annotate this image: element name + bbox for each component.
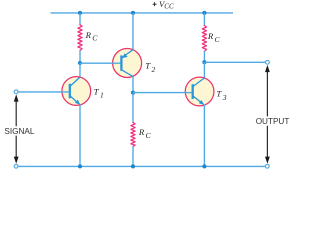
- node A junction dot: [78, 61, 82, 65]
- svg-text:C: C: [146, 131, 152, 140]
- wire node C to T3 collector: [203, 62, 205, 78]
- svg-text:C: C: [92, 34, 98, 43]
- wire node A to T1 collector: [79, 63, 81, 78]
- wire T3 emitter to bottom rail: [203, 105, 205, 167]
- node B junction dot: [131, 91, 135, 95]
- +VCC label: [153, 3, 157, 5]
- SIGNAL label: [3, 126, 34, 135]
- wire resistor RC2 to bottom rail: [132, 146, 134, 166]
- wire node B to resistor RC2: [132, 93, 134, 123]
- svg-text:R: R: [207, 31, 214, 41]
- svg-text:1: 1: [100, 90, 104, 99]
- junction on bottom rail at RC2: [131, 164, 135, 168]
- svg-text:R: R: [138, 127, 145, 137]
- signal double-headed arrow: [14, 94, 19, 163]
- node C junction dot: [202, 60, 206, 64]
- svg-text:C: C: [215, 35, 221, 44]
- transistor T1: [62, 77, 91, 106]
- +VCC supply rail: [51, 12, 234, 14]
- wire resistor R1 to node A: [79, 50, 81, 63]
- wire rail to resistor RC3: [203, 13, 205, 26]
- wire T1 emitter to bottom rail: [79, 105, 81, 167]
- wire node B to T3 base: [133, 92, 193, 94]
- svg-text:T: T: [145, 61, 151, 71]
- resistor RC2: [131, 122, 135, 146]
- signal input top terminal: [14, 90, 18, 94]
- wire T2 collector to node B: [132, 76, 134, 92]
- junction on top rail at T2: [131, 11, 135, 15]
- wire rail to resistor R1: [79, 13, 81, 25]
- junction on bottom rail at T1: [78, 164, 82, 168]
- resistor RC1: [78, 25, 82, 51]
- junction on bottom rail at T3: [202, 164, 206, 168]
- wire node A to T2 base: [80, 62, 122, 64]
- junction on top rail at RC3: [202, 11, 206, 15]
- output double-headed arrow: [265, 65, 270, 164]
- svg-text:T: T: [216, 89, 222, 99]
- output bottom terminal: [265, 164, 269, 168]
- svg-text:3: 3: [222, 93, 227, 102]
- output top terminal: [266, 60, 270, 64]
- OUTPUT label: [255, 116, 291, 125]
- svg-text:2: 2: [152, 65, 156, 74]
- svg-text:SIGNAL: SIGNAL: [4, 127, 34, 136]
- resistor RC3: [202, 26, 206, 52]
- wire rail to T2 emitter: [132, 13, 134, 50]
- svg-text:OUTPUT: OUTPUT: [256, 117, 290, 126]
- transistor T2: [112, 49, 142, 78]
- transistor T3: [185, 77, 214, 106]
- svg-text:R: R: [85, 30, 92, 40]
- svg-text:T: T: [94, 86, 100, 96]
- junction on top rail at RC1: [78, 11, 82, 15]
- signal input bottom terminal: [14, 164, 18, 168]
- wire signal terminal to T1 base: [18, 91, 69, 93]
- wire resistor RC3 to node C: [203, 51, 205, 62]
- svg-text:CC: CC: [164, 3, 174, 11]
- wire node C to output terminal: [204, 61, 265, 63]
- bottom rail wire: [18, 165, 265, 167]
